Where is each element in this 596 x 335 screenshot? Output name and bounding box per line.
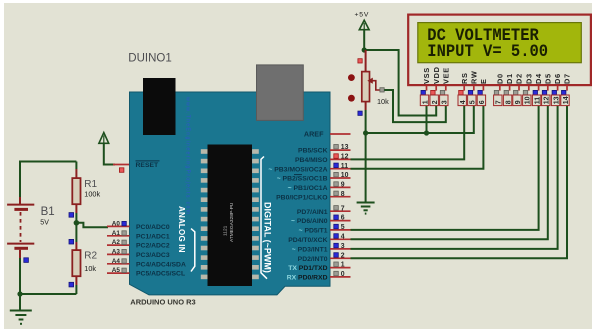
wire: +5V stem <box>363 30 365 50</box>
svg-text:100k: 100k <box>84 190 100 199</box>
svg-text:PC1/ADC1: PC1/ADC1 <box>136 233 170 240</box>
wire: bottom ground rail <box>20 293 76 295</box>
junction: VSS/ground rail <box>424 130 429 135</box>
terminal arrow (RESET) <box>99 133 109 144</box>
state square (pot top) <box>358 59 362 63</box>
state square (RESET) <box>119 168 124 173</box>
pin 1 (PD1/TXD) <box>330 267 351 269</box>
power terminal arrow <box>359 20 369 30</box>
svg-text:PC2/ADC2: PC2/ADC2 <box>136 243 170 250</box>
svg-text:8: 8 <box>505 100 512 104</box>
svg-text:PC4/ADC4/SDA: PC4/ADC4/SDA <box>136 261 186 268</box>
svg-text:1: 1 <box>422 100 429 104</box>
svg-text:INPUT V= 5.00: INPUT V= 5.00 <box>427 42 548 62</box>
USB connector <box>143 78 176 135</box>
LCD text line 1 <box>427 26 539 46</box>
svg-text:D1: D1 <box>505 73 514 84</box>
wire: pin 4 to LCD D5 <box>351 105 548 239</box>
svg-text:0: 0 <box>341 271 345 278</box>
resistor R2 10k <box>75 223 77 242</box>
wire: reset terminal to RESET pin <box>104 143 115 164</box>
LCD screen <box>418 23 582 63</box>
svg-text:9: 9 <box>341 182 345 189</box>
svg-text:11: 11 <box>534 97 541 105</box>
ground symbol (battery) <box>10 294 32 324</box>
brace (digital group) <box>261 157 267 279</box>
svg-text:D6: D6 <box>553 73 562 84</box>
svg-text:PB5/SCK: PB5/SCK <box>298 148 328 155</box>
ground symbol (pot) <box>357 203 375 214</box>
svg-text:RW: RW <box>469 70 478 84</box>
svg-text:~ PD5/T1: ~ PD5/T1 <box>299 228 328 235</box>
svg-text:~ PD6/AIN0: ~ PD6/AIN0 <box>291 218 328 225</box>
svg-text:12: 12 <box>544 96 551 104</box>
svg-text:7: 7 <box>496 100 503 104</box>
state square (pot wiper) <box>380 88 384 92</box>
svg-text:RS: RS <box>460 72 469 84</box>
svg-text:+5V: +5V <box>355 12 370 19</box>
state square (R2 bottom) <box>69 282 74 287</box>
svg-text:DUINO1: DUINO1 <box>128 53 171 65</box>
wire: battery top lead <box>19 161 21 198</box>
svg-text:www.TheEngineeringProjects.com: www.TheEngineeringProjects.com <box>185 97 191 214</box>
svg-text:9: 9 <box>515 100 522 104</box>
pin 9 (PB1/OC1A) <box>330 186 351 188</box>
pin 4 (PD4/T0/XCK) <box>330 238 351 240</box>
svg-text:6: 6 <box>479 100 486 104</box>
svg-text:R1: R1 <box>84 179 97 190</box>
svg-text:~ PD3/INT1: ~ PD3/INT1 <box>292 247 328 254</box>
pin A1 <box>107 235 130 237</box>
svg-text:5: 5 <box>470 100 477 104</box>
svg-text:D4: D4 <box>534 73 543 84</box>
junction: battery/ground <box>17 291 22 296</box>
pin AREF <box>330 133 351 135</box>
svg-text:PD4/T0/XCK: PD4/T0/XCK <box>288 237 327 244</box>
wire: pot bottom to ground <box>365 110 367 202</box>
junction: pot/ground rail <box>363 130 368 135</box>
state square (pot bottom) <box>358 111 362 115</box>
svg-text:TX PD1/TXD: TX PD1/TXD <box>288 265 327 272</box>
svg-text:PC3/ADC3: PC3/ADC3 <box>136 252 170 259</box>
svg-text:14: 14 <box>563 96 570 104</box>
wire: pin 3 to LCD D6 <box>351 105 558 249</box>
svg-text:D2: D2 <box>515 73 524 84</box>
svg-text:A4: A4 <box>112 258 121 265</box>
Arduino board DUINO1 <box>130 92 331 295</box>
wire: pin 12 to LCD RS <box>351 105 465 159</box>
pin 3 (PD3/INT1) <box>330 248 351 250</box>
svg-text:5V: 5V <box>40 220 49 227</box>
pin A5 <box>107 272 130 274</box>
svg-text:11: 11 <box>341 163 348 170</box>
svg-text:10: 10 <box>525 96 532 104</box>
svg-text:R2: R2 <box>84 251 97 262</box>
wire: pin 11 to LCD E <box>351 105 484 169</box>
svg-text:6: 6 <box>341 215 345 222</box>
svg-text:E: E <box>479 78 488 84</box>
svg-text:~ PB2/SS/OC1B: ~ PB2/SS/OC1B <box>277 176 328 183</box>
IC ATMEGA328P <box>201 149 259 279</box>
pin 5 (PD5/T1) <box>330 229 351 231</box>
pin 8 (PB0/ICP1/CLKO) <box>330 196 351 198</box>
svg-text:VSS: VSS <box>422 67 431 84</box>
LCD text line 2 <box>427 42 548 62</box>
wire: battery bottom lead to ground rail <box>19 258 21 294</box>
svg-text:7: 7 <box>341 205 345 212</box>
pin A2 <box>107 244 130 246</box>
pot adjust buttons <box>348 74 355 81</box>
svg-text:PB4/MISO: PB4/MISO <box>295 157 327 164</box>
svg-text:5: 5 <box>341 224 345 231</box>
junction: divider node <box>74 220 80 226</box>
resistor R1 100k <box>75 162 77 170</box>
pin 11 (PB3/MOSI/OC2A) <box>330 168 351 170</box>
svg-text:A3: A3 <box>112 249 121 256</box>
state square (R2 top) <box>69 239 74 244</box>
wire: ground rail to LCD RW <box>366 105 474 133</box>
svg-text:4: 4 <box>460 100 467 104</box>
wire: top rail from battery + to R1 top <box>20 161 76 163</box>
svg-text:DIGITAL (~PWM): DIGITAL (~PWM) <box>263 202 273 273</box>
state square (battery -) <box>24 258 29 263</box>
svg-text:A1: A1 <box>112 230 121 237</box>
junction: +5V node <box>362 47 367 52</box>
svg-text:ATMEGA328P-PU: ATMEGA328P-PU <box>229 202 235 242</box>
pot wiper <box>372 81 380 90</box>
LCD module LM016L <box>408 15 591 86</box>
svg-text:A2: A2 <box>112 239 121 246</box>
svg-text:A0: A0 <box>112 221 121 228</box>
svg-text:D0: D0 <box>495 73 504 84</box>
svg-text:D5: D5 <box>543 73 552 84</box>
wire: LCD VSS down to ground rail <box>426 105 428 133</box>
svg-text:VDD: VDD <box>432 66 441 84</box>
svg-text:10: 10 <box>341 172 349 179</box>
wire: pot wiper to LCD VEE <box>384 90 446 122</box>
pin A3 <box>107 253 130 255</box>
overline SS <box>294 174 302 176</box>
svg-text:VEE: VEE <box>441 67 450 84</box>
pin 10 (PB2/SS/OC1B) <box>330 177 351 179</box>
battery B1 <box>7 205 34 258</box>
svg-text:3: 3 <box>442 100 449 104</box>
state square (R1 bottom) <box>69 213 74 218</box>
svg-text:3: 3 <box>341 243 345 250</box>
svg-text:2: 2 <box>341 252 345 259</box>
svg-text:RX PD0/RXD: RX PD0/RXD <box>287 275 328 282</box>
pin line RESET <box>113 164 130 166</box>
brace (analog group) <box>191 229 195 272</box>
pin 2 (PD2/INT0) <box>330 257 351 259</box>
wire: divider node to A0 <box>76 223 108 227</box>
svg-text:ARDUINO UNO R3: ARDUINO UNO R3 <box>130 297 195 306</box>
pin 6 (PD6/AIN0) <box>330 220 351 222</box>
svg-text:ANALOG IN: ANALOG IN <box>177 206 186 253</box>
wire: pin 2 to LCD D7 <box>351 105 568 258</box>
svg-text:1121: 1121 <box>222 225 228 236</box>
svg-text:~ PB3/MOSI/OC2A: ~ PB3/MOSI/OC2A <box>268 166 327 173</box>
svg-text:PD7/AIN1: PD7/AIN1 <box>297 209 328 216</box>
svg-text:8: 8 <box>341 191 345 198</box>
svg-text:PB0/ICP1/CLKO: PB0/ICP1/CLKO <box>276 194 327 201</box>
svg-text:1: 1 <box>341 262 345 269</box>
svg-text:13: 13 <box>341 144 349 151</box>
wire: pin 5 to LCD D4 <box>351 105 539 230</box>
potentiometer RV1 10k <box>365 50 367 72</box>
svg-text:12: 12 <box>341 154 349 161</box>
svg-text:B1: B1 <box>41 206 55 218</box>
pin 13 (PB5/SCK) <box>330 149 351 151</box>
pin A4 <box>107 263 130 265</box>
svg-text:PC5/ADC5/SCL: PC5/ADC5/SCL <box>136 271 185 278</box>
svg-text:2: 2 <box>432 100 439 104</box>
svg-text:D7: D7 <box>563 73 572 84</box>
svg-text:D3: D3 <box>524 73 533 84</box>
svg-text:4: 4 <box>341 233 345 240</box>
svg-text:A5: A5 <box>112 267 121 274</box>
pin 7 (PD7/AIN1) <box>330 210 351 212</box>
wire: +5V to LCD VDD <box>364 50 436 116</box>
svg-text:RESET: RESET <box>136 162 160 169</box>
svg-text:AREF: AREF <box>304 130 324 139</box>
svg-text:~ PB1/OC1A: ~ PB1/OC1A <box>288 185 328 192</box>
svg-text:13: 13 <box>553 96 560 104</box>
svg-text:PC0/ADC0: PC0/ADC0 <box>136 224 170 231</box>
svg-text:PD2/INT0: PD2/INT0 <box>298 256 328 263</box>
svg-text:10k: 10k <box>377 97 389 106</box>
pin 0 (PD0/RXD) <box>330 276 351 278</box>
svg-text:10k: 10k <box>84 264 96 273</box>
pin 12 (PB4/MISO) <box>330 158 351 160</box>
pin A0 <box>107 225 130 227</box>
DC power jack <box>257 65 304 121</box>
